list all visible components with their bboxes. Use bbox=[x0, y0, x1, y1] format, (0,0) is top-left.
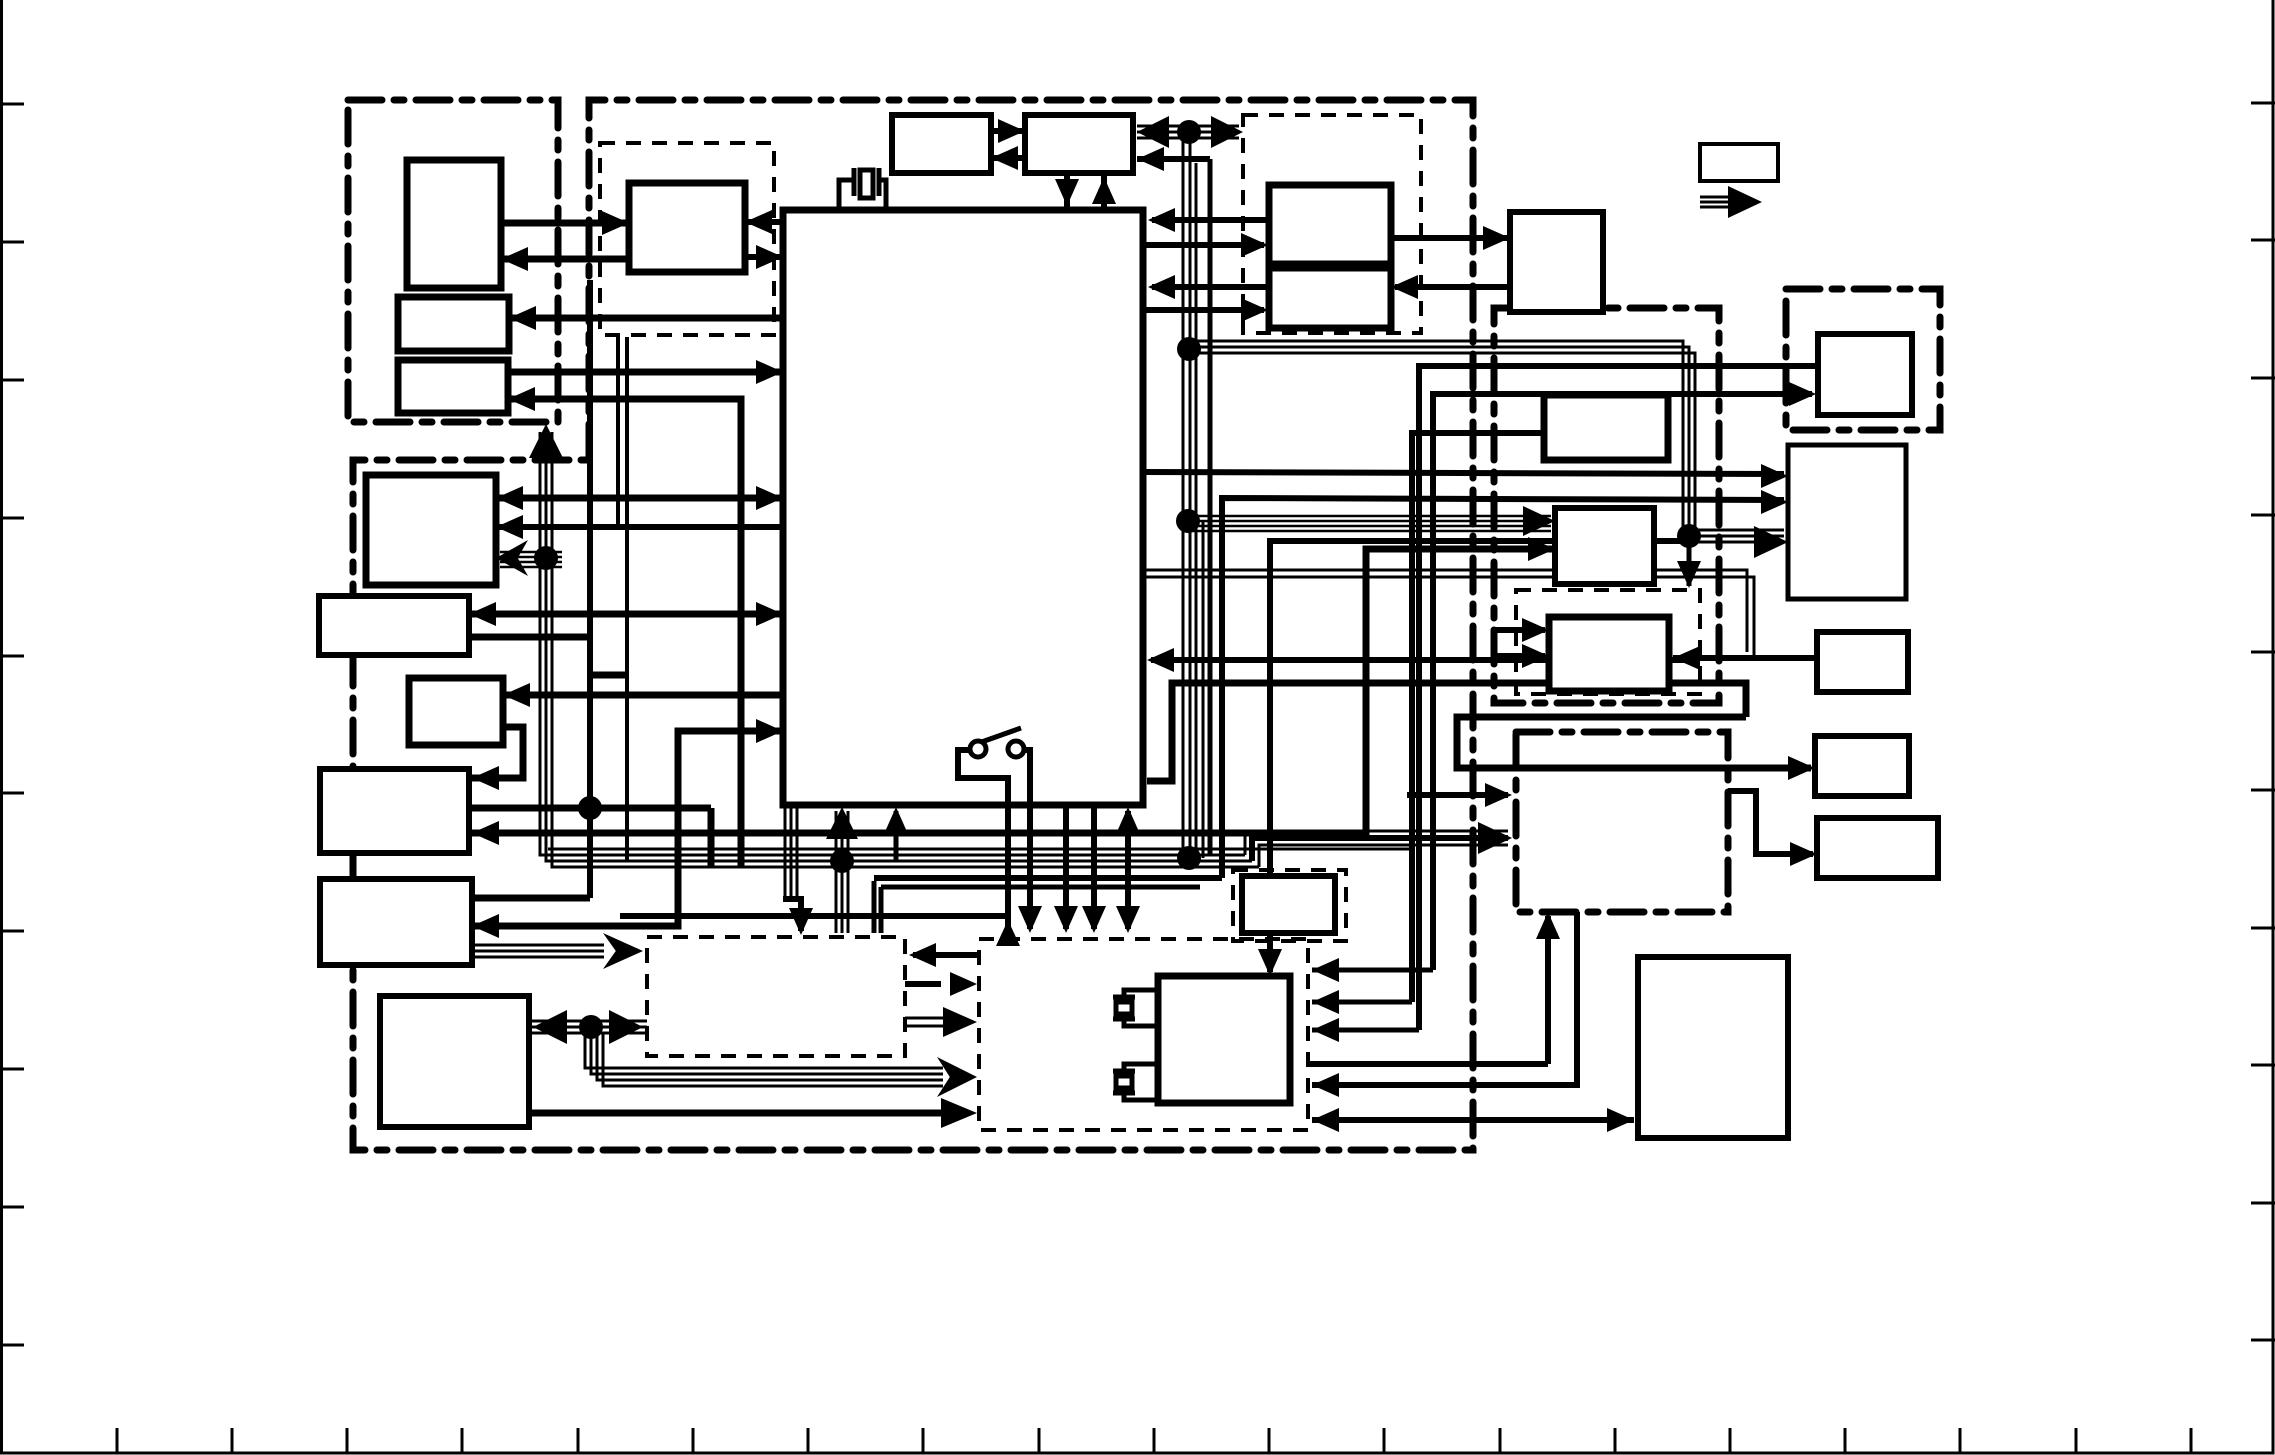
wire from junction down to DJ bbox=[1687, 536, 1692, 586]
wire B2 down to BIG bbox=[1064, 173, 1070, 210]
wire from riser x741 into A3 bbox=[508, 399, 741, 866]
bus y521 quad to I bbox=[1190, 516, 1551, 531]
arrow into L left at y477 bbox=[1761, 464, 1788, 488]
arrow into BIG right at y220 bbox=[1148, 208, 1175, 232]
wire BIG to A2 bbox=[509, 315, 783, 322]
arrow into B1 right at y158 bbox=[991, 146, 1018, 170]
arrow up x1128 into BIG bottom bbox=[1116, 807, 1140, 834]
arrow into D right at y287 bbox=[1391, 275, 1418, 299]
arrow up into R2 bottom x1548 bbox=[1536, 912, 1560, 939]
wire into J left y656 bbox=[1494, 653, 1545, 659]
legend box bbox=[1700, 144, 1778, 181]
block M bbox=[1817, 632, 1908, 692]
block E bbox=[1510, 212, 1603, 312]
bus VB1 triple vertical with bends to lower bundle bbox=[540, 432, 1259, 867]
wire y541 from Q riser to junction bbox=[1270, 541, 1689, 876]
wire x1094 BIG to DTC bbox=[1091, 805, 1097, 929]
block R bbox=[1158, 976, 1290, 1103]
arrow down x1066 into DTC bbox=[1054, 906, 1078, 933]
dashed box DTL (left tuner area) bbox=[647, 937, 905, 1056]
arrow up into BIG bottom x896 bbox=[884, 807, 908, 834]
junction x1189 y858 bbox=[1177, 846, 1201, 870]
arrow into G right at y614 bbox=[469, 602, 496, 626]
wire to B2 right at y159 bbox=[1137, 156, 1210, 162]
arrow into F right at y498 bbox=[496, 486, 523, 510]
junction VB2 at y808 bbox=[578, 796, 602, 820]
wire box R out y1064 bbox=[1308, 1061, 1548, 1067]
wire into M left y658 bbox=[1697, 655, 1817, 661]
bus S-DTL triple bbox=[529, 1021, 647, 1033]
arrow into DTC left at y984 bbox=[950, 972, 977, 996]
wire C to BIG y220 bbox=[1152, 217, 1269, 223]
bus triple below BIG bottom-left bbox=[785, 805, 797, 899]
arrow up x1008 below BIG bbox=[996, 920, 1020, 946]
block L bbox=[1788, 445, 1906, 599]
arrow into BIG left at y372 bbox=[756, 360, 783, 384]
arrow down x1094 into DTC bbox=[1082, 906, 1106, 933]
bus P-DTL triple bbox=[472, 945, 604, 957]
dashed box DCD (interface area) bbox=[1243, 115, 1421, 333]
wire riser x1419 and y366 bbox=[1419, 366, 1816, 1030]
crystal X2 bbox=[1113, 990, 1158, 1026]
wire into BIG right y660 bbox=[1151, 657, 1700, 663]
wire BIG feed to snake bbox=[1147, 683, 1746, 781]
junction x842 y861 bbox=[830, 849, 854, 873]
wire x1128 BIG-DTC bidirectional bbox=[1125, 811, 1131, 929]
wire DTC-T bidirectional y1120 bbox=[1312, 1117, 1634, 1123]
arrow into BIG left at y257 bbox=[756, 245, 783, 269]
arrow into A3 right at y399 bbox=[508, 387, 535, 411]
wire N to O step bbox=[472, 727, 523, 778]
dashed box DTC (tuner unit) bbox=[979, 939, 1308, 1130]
outline arrow into DTL left at y951 bbox=[603, 933, 643, 969]
block D bbox=[1269, 268, 1391, 328]
block K bbox=[1818, 334, 1912, 415]
bus staircase up to R2 feed bbox=[1245, 831, 1508, 867]
arrow up into B2 bottom bbox=[1092, 177, 1116, 204]
junction VB11 at y349 bbox=[1177, 337, 1201, 361]
block O bbox=[320, 769, 469, 853]
legend arrowhead bbox=[1728, 186, 1762, 218]
wire runner bottom x1419 into DTC y1030 bbox=[1312, 1028, 1419, 1033]
arrow into R2 left at y795 bbox=[1485, 783, 1512, 807]
bus triple x842 bbox=[836, 811, 848, 933]
arrow into C left at y245 bbox=[1241, 233, 1268, 257]
arrow into D left at y310 bbox=[1241, 298, 1268, 322]
arrow into B2 right at y159 bbox=[1137, 147, 1164, 171]
block F bbox=[366, 475, 496, 585]
bus triple y347 to x1689 down to dot bbox=[1189, 341, 1695, 536]
arrow into N right at y695 bbox=[503, 683, 530, 707]
wire BIG to N y695 bbox=[503, 692, 783, 699]
block BIG (main IC) bbox=[783, 210, 1143, 805]
bottom edge ruler tick marks bbox=[116, 1428, 119, 1453]
legend bus lines bbox=[1700, 197, 1742, 207]
wire C to E bbox=[1391, 235, 1510, 241]
wire VB11b vertical x1210 bbox=[1208, 159, 1213, 855]
arrow into DTL left at y1027 bbox=[609, 1010, 643, 1044]
junction VB11 at y521 bbox=[1176, 509, 1200, 533]
bus mid line to R2 bbox=[1252, 838, 1508, 861]
wire B1-B2 upper bbox=[991, 128, 1025, 134]
arrow into R2 left at y839 bbox=[1478, 822, 1512, 854]
wire VB5 vertical x711 bbox=[708, 808, 715, 867]
wire into F right at y527 bbox=[496, 524, 783, 530]
module boundary R2 (right lower unit) bbox=[1516, 732, 1728, 912]
block J bbox=[1549, 617, 1669, 691]
wire pair x618/x627 vertical bbox=[618, 337, 627, 860]
right edge ruler tick marks bbox=[2251, 102, 2275, 105]
arrow into BIG right at y287 bbox=[1148, 275, 1175, 299]
block V bbox=[1817, 818, 1938, 878]
wire x1548 from box R area up into R2 bbox=[1545, 916, 1551, 1064]
block S bbox=[380, 996, 529, 1127]
arrow into B2 right at y132 bbox=[1137, 116, 1169, 148]
wire P out y898 to VB2 bbox=[472, 895, 590, 902]
bus from junction down and right to DTC bbox=[585, 1027, 943, 1086]
arrow into DTC left at y1022 bbox=[943, 1007, 977, 1037]
wire x1066 BIG to DTC bbox=[1063, 805, 1069, 929]
block B1 bbox=[892, 115, 991, 173]
arrow into J right at y658 bbox=[1673, 646, 1700, 670]
dashed box DOsc (oscillator area) bbox=[600, 143, 774, 335]
wire pair y572 to x1747 down to J bbox=[1143, 570, 1754, 658]
block A2 bbox=[398, 297, 509, 351]
block G bbox=[319, 596, 469, 655]
bus B2-DCD triple y132 bbox=[1137, 126, 1239, 138]
arrow into DTC right y1030 bbox=[1312, 1018, 1339, 1042]
wire snake y717 bbox=[1457, 717, 1811, 768]
wire BIG to D y310 bbox=[1143, 307, 1264, 313]
wire drop x881 into DTC bbox=[879, 887, 884, 933]
arrow into I left at y549 bbox=[1528, 537, 1555, 561]
arrow into L left at y536 bbox=[1754, 526, 1788, 558]
arrow into S right at y1027 bbox=[533, 1010, 567, 1044]
arrow into L left at y503 bbox=[1761, 490, 1788, 514]
wire drop x874 into DTC bbox=[872, 881, 877, 933]
left edge ruler tick marks bbox=[0, 103, 24, 106]
arrow into O right at y833 bbox=[472, 821, 499, 845]
arrow into T left y1120 bbox=[1607, 1108, 1634, 1132]
bus from junction to L bbox=[1689, 530, 1784, 542]
wire B2-B1 lower bbox=[991, 155, 1025, 161]
bus from VB1 junction into F bbox=[500, 552, 562, 567]
block A1 bbox=[407, 160, 501, 288]
block Q bbox=[1242, 876, 1335, 933]
wire bundle y878 bbox=[874, 875, 1222, 881]
arrow down into DJ top bbox=[1677, 561, 1701, 588]
wire step y675 from VB2 to VB3 bbox=[590, 672, 627, 679]
wire DTL to DTC y984 bbox=[905, 981, 941, 987]
arrow into A2 right at y318 bbox=[509, 306, 536, 330]
wire pair DTL to DTC y1022 bbox=[905, 1018, 943, 1026]
wire A1 to OSC bbox=[501, 220, 629, 227]
wire into J right bbox=[1673, 655, 1754, 661]
module boundary R1 (right mid unit) bbox=[1494, 308, 1719, 703]
arrow into OSC right at y222 bbox=[745, 210, 772, 234]
block H bbox=[1544, 395, 1668, 460]
wire OSC to A1 bbox=[501, 256, 629, 263]
dashed box DJ bbox=[1516, 590, 1700, 694]
arrow into DTC left at y1113 bbox=[941, 1098, 977, 1128]
arrow up into BIG bottom x842 bbox=[826, 807, 858, 839]
wire O in y833 long from riser x1366 bbox=[472, 549, 1555, 833]
wire F-BIG bidirectional y498 bbox=[496, 495, 783, 502]
module boundary R3 (top-right unit) bbox=[1786, 289, 1940, 430]
wire pair y887 bbox=[881, 885, 1200, 890]
arrow down x1128 into DTC bbox=[1116, 906, 1140, 933]
crystal X3 bbox=[1113, 1064, 1158, 1100]
wire into R2 y795 bbox=[1407, 792, 1508, 798]
wire Q down to R bbox=[1267, 933, 1273, 972]
crystal X1 bbox=[839, 168, 886, 211]
junction at x1189 y132 bbox=[1177, 120, 1201, 144]
arrow into OSC left at y223 bbox=[602, 211, 629, 235]
module boundary M1 (top-left unit) bbox=[348, 100, 558, 422]
outline arrow into F right at y558 bbox=[496, 540, 528, 576]
wire S out y1113 to DTC bbox=[529, 1110, 941, 1117]
wire VB2 vertical x590 bbox=[587, 280, 593, 898]
arrow into BIG left at y731 bbox=[756, 719, 783, 743]
switch SW1 bbox=[970, 728, 1024, 757]
wire E to D bbox=[1395, 284, 1510, 290]
arrow into E left at y238 bbox=[1483, 226, 1510, 250]
wire G out y637 bbox=[469, 634, 590, 641]
arrow into A1 right at y259 bbox=[501, 247, 528, 271]
dashed box DQ bbox=[1233, 870, 1346, 941]
block B2 bbox=[1025, 115, 1133, 173]
arrow down into DTC top x801 bbox=[789, 908, 813, 935]
wire y472 BIG to L bbox=[1143, 472, 1784, 474]
wire bundle y899 to down arrow x801 bbox=[783, 899, 801, 931]
arrow down x1030 into DTC bbox=[1018, 906, 1042, 933]
arrow into DTC right y1002 bbox=[1312, 990, 1339, 1014]
junction x1689 y536 bbox=[1677, 524, 1701, 548]
wire runner bottom x1433 into DTC y970 bbox=[1312, 968, 1433, 973]
arrow into I left at y521 bbox=[1523, 506, 1555, 536]
wire BIG to C y245 bbox=[1143, 242, 1264, 248]
arrow into B2 left at y131 bbox=[998, 119, 1025, 143]
arrow down into R top bbox=[1258, 949, 1282, 976]
arrow into DCD left at y132 bbox=[1211, 116, 1243, 148]
wire DTC to DTL y955 bbox=[913, 952, 977, 958]
arrow into BIG left at y498 bbox=[756, 486, 783, 510]
wire x1577 from R2 down into DTC bbox=[1312, 912, 1577, 1085]
arrow up into module M1 bottom bbox=[529, 424, 563, 458]
wire BIG to OSC bbox=[745, 219, 783, 225]
arrow into DTC right y970 bbox=[1312, 958, 1339, 982]
block P bbox=[320, 879, 472, 965]
wire A3 out to BIG bbox=[508, 369, 783, 376]
wire D to BIG y287 bbox=[1152, 284, 1269, 290]
wire R2 to V bbox=[1728, 791, 1813, 854]
wire O out y808 to riser x711 bbox=[469, 805, 711, 812]
wire runner bottom x1412 into DTC y1002 bbox=[1312, 1000, 1412, 1005]
block OSC bbox=[629, 183, 745, 272]
arrow into K left at y394 bbox=[1789, 382, 1816, 406]
arrow into J left at y656 bbox=[1522, 644, 1549, 668]
arrow into V left at y854 bbox=[1790, 842, 1817, 866]
arrow into F right at y527 bbox=[496, 515, 523, 539]
wire BIG up to B2 bbox=[1101, 173, 1107, 210]
arrow into J left at y630 bbox=[1522, 618, 1549, 642]
wire switch right lead bbox=[1023, 750, 1030, 929]
block N bbox=[409, 678, 503, 745]
wire riser x1412 and y433 to H bbox=[1412, 433, 1544, 1002]
wire up arrow x896 into BIG bottom bbox=[894, 811, 899, 861]
wire G-BIG bidirectional y614 bbox=[469, 611, 783, 618]
junction on S-DTL bus bbox=[579, 1015, 603, 1039]
arrow down into BIG top bbox=[1055, 179, 1079, 206]
outline arrow into DTC left at y1077 bbox=[937, 1057, 977, 1097]
bus thin y849 bbox=[548, 848, 1410, 851]
wire P-BIG bidirectional via x678 bbox=[472, 731, 783, 926]
arrow into DTL right at y955 bbox=[909, 943, 936, 967]
block C bbox=[1269, 185, 1391, 264]
block U bbox=[1815, 736, 1909, 796]
arrow into BIG left at y614 bbox=[756, 602, 783, 626]
wire bundle y916 bbox=[620, 913, 1008, 919]
junction on VB1 at y558 bbox=[534, 546, 558, 570]
arrow into P right at y926 bbox=[472, 914, 499, 938]
arrow into O right at y778 bbox=[472, 766, 499, 790]
wire into J left y630 bbox=[1494, 627, 1545, 633]
block I bbox=[1555, 508, 1654, 584]
arrow into U left at y768 bbox=[1788, 756, 1815, 780]
arrow into DTC right y1120 bbox=[1312, 1108, 1339, 1132]
arrow into BIG right at y660 bbox=[1147, 648, 1174, 672]
bus VB11 quad vertical bbox=[1183, 132, 1203, 858]
block A3 bbox=[398, 360, 508, 413]
module boundary M2 (main board, L-shaped) bbox=[353, 100, 1473, 1150]
wire riser x1222 down and y498 to L bbox=[1222, 498, 1784, 878]
block T bbox=[1638, 957, 1788, 1138]
wire OSC to BIG bbox=[745, 254, 783, 260]
arrow into DTC right y1085 bbox=[1312, 1073, 1339, 1097]
wire riser x1433 and y394 into K bbox=[1433, 394, 1812, 970]
wire switch left lead bbox=[958, 750, 1008, 933]
